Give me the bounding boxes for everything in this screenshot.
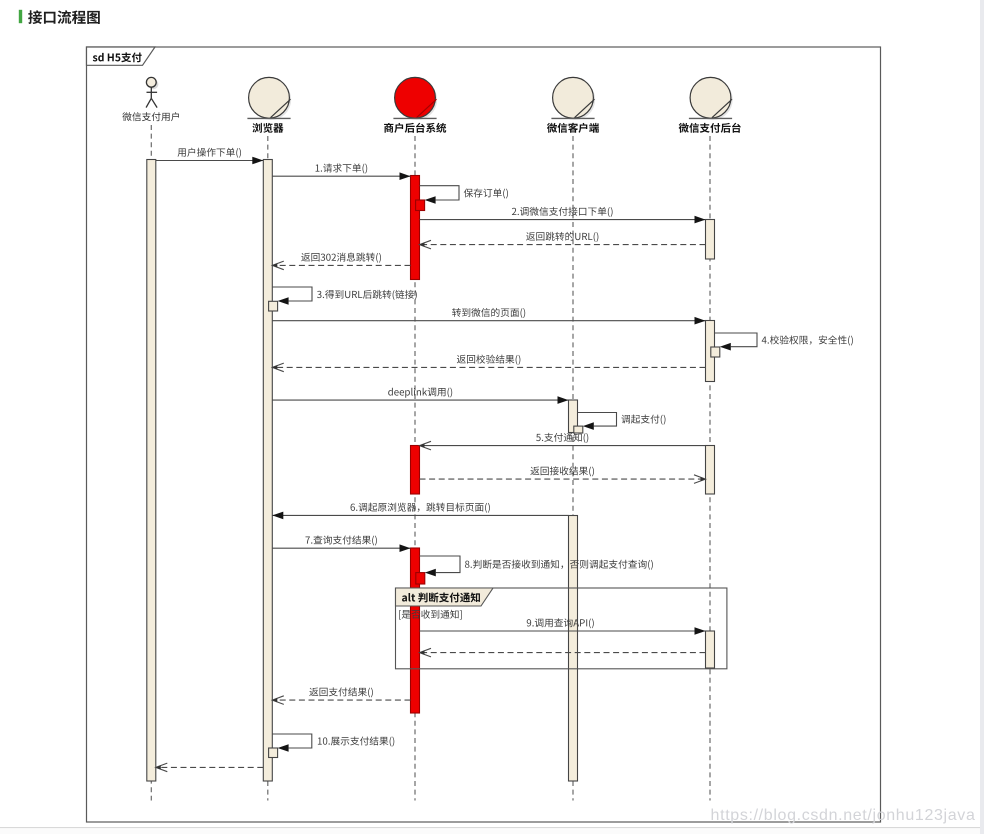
activation 微信支付用户 [147,160,156,782]
frame tab sd H5支付 [87,47,156,65]
activation 微信支付后台 seg4 [706,631,715,668]
return 返回校验结果() [272,355,705,372]
activation 商户后台系统 seg2 [411,446,420,495]
page title green marker [19,10,22,23]
message 5.支付通知() [420,433,706,450]
return 返回302消息跳转() [272,253,410,270]
object 微信支付后台 (balloon) [689,77,733,120]
final return to user (dashed) [156,763,263,772]
activation 微信支付后台 seg1 [706,220,715,260]
message 用户操作下单() [156,148,263,165]
activation 微信支付后台 seg2 [706,321,715,382]
alt guard [是否收到通知] [399,610,462,620]
lifeline 微信客户端 [572,136,574,801]
return (query result, unlabeled) [420,648,706,657]
return 返回跳转的URL() [420,232,706,249]
self message 3.得到URL后跳转(链接) [269,287,417,311]
lifeline 微信支付后台 [709,136,711,801]
return 返回接收结果() [420,466,706,483]
object 微信客户端 (balloon) [551,77,595,120]
lifeline 浏览器 [267,136,269,801]
lifeline 商户后台系统 [414,136,416,801]
activation 微信客户端 seg2 [569,516,578,782]
self message 保存订单() [416,186,508,211]
activation 微信客户端 seg1 [569,400,578,433]
alt fragment tab [396,588,494,606]
message deeplink调用() [272,388,568,404]
self message 10.展示支付结果() [269,734,395,758]
object label 商户后台系统 [384,123,446,133]
message 转到微信的页面() [272,308,705,325]
message 2.调微信支付接口下单() [420,207,706,224]
self message 8.判断是否接收到通知，否则调起支付查询() [416,556,653,584]
object label 微信支付后台 [679,123,741,133]
activation 商户后台系统 seg3 [411,548,420,713]
object 浏览器 (balloon) [247,77,291,120]
self message 调起支付() [574,413,666,434]
object label 浏览器 [252,123,283,133]
message 9.调用查询API() [420,618,706,635]
message 1.请求下单() [272,163,410,180]
object 商户后台系统 (red balloon) [393,77,437,120]
bottom separator line [0,827,984,834]
actor 微信支付用户 (stick figure) [146,77,158,107]
svg-text:https://blog.csdn.net/jonhu123: https://blog.csdn.net/jonhu123java [711,807,976,824]
alt fragment frame 判断支付通知 [396,588,727,669]
return 返回支付结果() [272,687,410,704]
activation 微信支付后台 seg3 [706,446,715,495]
right scrollbar strip [980,0,984,834]
object label 微信客户端 [547,123,599,133]
message 7.查询支付结果() [272,535,410,552]
actor label 微信支付用户 [122,112,179,121]
self message 4.校验权限，安全性() [711,333,853,357]
activation 商户后台系统 seg1 [411,176,420,280]
sequence diagram frame [87,47,881,822]
message 6.调起原浏览器，跳转目标页面() [272,503,568,520]
lifeline 微信支付用户 [150,125,152,801]
page title 接口流程图 [28,10,100,24]
activation 浏览器 [263,160,272,782]
